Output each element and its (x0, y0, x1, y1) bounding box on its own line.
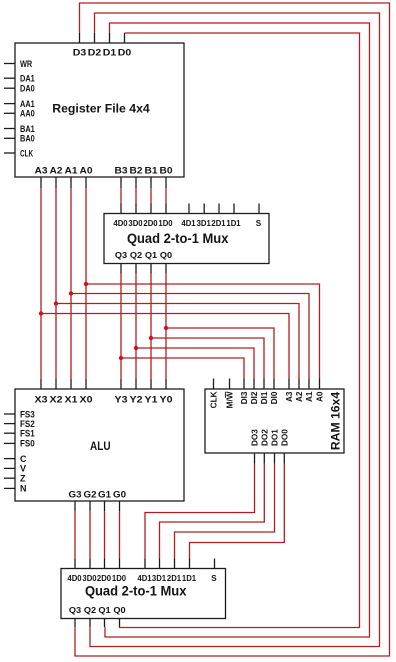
mux U2 pin 1D1 stub (233, 204, 235, 214)
svg-text:3D0: 3D0 (82, 574, 97, 583)
ALU pin Y2 stub (135, 379, 137, 389)
mux U5 pin S stub (214, 559, 216, 569)
svg-text:DI1: DI1 (260, 391, 269, 404)
svg-text:DI3: DI3 (240, 391, 249, 404)
register file pin A3 stub (40, 177, 42, 188)
RAM U4 box (205, 389, 344, 453)
RAM pin A0 stub (319, 379, 321, 390)
wire branch Y3 to RAM DI3 (121, 358, 244, 379)
register file pin B0 stub (165, 177, 167, 188)
RAM pin DO1 stub (274, 453, 276, 464)
svg-text:DA0: DA0 (20, 84, 35, 94)
svg-text:1D0: 1D0 (112, 574, 127, 583)
svg-text:DO1: DO1 (271, 429, 280, 446)
ALU pin G0 stub (119, 501, 121, 511)
mux U2 pin 4D1 stub (188, 204, 190, 214)
RAM pin CLK stub (213, 379, 215, 390)
RAM pin M/W overline (224, 392, 226, 398)
svg-text:2D1: 2D1 (167, 574, 182, 583)
register file pin A1 stub (70, 177, 72, 188)
ALU pin V stub (4, 467, 15, 469)
junction node Y1 (149, 336, 153, 340)
svg-text:WR: WR (20, 59, 33, 69)
svg-text:DO2: DO2 (261, 429, 270, 446)
svg-text:4D0: 4D0 (113, 219, 128, 228)
junction node A0 (84, 282, 88, 286)
mux U2 pin Q3 stub (120, 264, 122, 274)
svg-text:FS2: FS2 (20, 419, 35, 429)
ALU pin X2 stub (55, 379, 57, 389)
svg-text:B3: B3 (115, 166, 128, 176)
svg-text:G2: G2 (84, 489, 97, 499)
svg-text:1D1: 1D1 (182, 574, 197, 583)
wire branch A3 to RAM A3 (41, 314, 289, 379)
wire net A1 to ALU X1 (70, 188, 72, 379)
RAM pin DO3 stub (254, 453, 256, 464)
svg-text:DO3: DO3 (251, 429, 260, 446)
svg-text:Quad 2-to-1 Mux: Quad 2-to-1 Mux (127, 231, 229, 246)
mux U5 pin Q0 stub (119, 619, 121, 628)
svg-text:G3: G3 (69, 489, 82, 499)
RAM pin DI1 stub (263, 379, 265, 390)
wire net DO1 RAM to mux 2D1 (175, 464, 275, 559)
svg-text:Z: Z (20, 474, 26, 484)
svg-text:FS3: FS3 (20, 409, 35, 419)
wire net Q1 mux U5 to register D1 (105, 23, 370, 637)
wire net DO3 RAM to mux 4D1 (145, 464, 255, 559)
wire net Q2 mux U5 to register D2 (90, 13, 380, 647)
mux U2 pin Q2 stub (135, 264, 137, 274)
svg-text:Q2: Q2 (84, 606, 97, 615)
wire net Y3 mux Q3 to ALU Y3 (120, 274, 122, 380)
svg-text:4D1: 4D1 (181, 219, 196, 228)
junction node Y0 (164, 326, 168, 330)
svg-text:N: N (20, 484, 27, 494)
svg-text:Q1: Q1 (98, 606, 111, 615)
register file pin CLK stub (4, 152, 15, 154)
wire net DO2 RAM to mux 3D1 (160, 464, 265, 559)
quad 2-to-1 mux U5 box (61, 569, 226, 619)
ALU pin N stub (4, 487, 15, 489)
wire net B2 to mux 3D0 (135, 188, 137, 203)
svg-text:FS0: FS0 (20, 439, 35, 449)
svg-text:CLK: CLK (20, 148, 34, 158)
wire net Q0 mux U5 to register D0 (inner loop) (120, 33, 360, 628)
register file pin BA1 stub (4, 128, 15, 130)
svg-text:A1: A1 (65, 166, 78, 176)
ALU pin FS1 stub (4, 432, 15, 434)
ALU pin FS2 stub (4, 423, 15, 425)
mux U5 pin Q1 stub (104, 619, 106, 628)
register file pin A0 stub (85, 177, 87, 188)
ALU pin FS3 stub (4, 413, 15, 415)
register file pin A2 stub (55, 177, 57, 188)
svg-text:Quad 2-to-1 Mux: Quad 2-to-1 Mux (85, 583, 187, 598)
RAM pin A1 stub (308, 379, 310, 390)
svg-text:V: V (20, 464, 26, 474)
wire net B3 to mux 4D0 (120, 188, 122, 203)
register file pin D1 stub (109, 33, 111, 43)
svg-text:DI0: DI0 (270, 391, 279, 404)
svg-text:A3: A3 (35, 166, 48, 176)
svg-text:X3: X3 (35, 395, 48, 405)
svg-text:B1: B1 (145, 166, 158, 176)
mux U5 pin 1D0 stub (119, 559, 121, 569)
ALU pin G2 stub (89, 501, 91, 511)
svg-text:D3: D3 (73, 47, 87, 57)
register file pin DA0 stub (4, 87, 15, 89)
register file pin B3 stub (120, 177, 122, 188)
wire branch Y2 to RAM DI2 (136, 348, 254, 379)
svg-text:X1: X1 (65, 395, 78, 405)
svg-text:A0: A0 (80, 166, 93, 176)
wire net DO0 RAM to mux 1D1 (190, 464, 285, 559)
register file pin B2 stub (135, 177, 137, 188)
RAM pin DO2 stub (263, 453, 265, 464)
svg-text:B0: B0 (160, 166, 173, 176)
svg-text:Q0: Q0 (160, 251, 173, 260)
register file pin BA0 stub (4, 137, 15, 139)
RAM pin A3 stub (288, 379, 290, 390)
svg-text:FS1: FS1 (20, 429, 35, 439)
svg-text:Q2: Q2 (130, 251, 143, 260)
wire net Y2 mux Q2 to ALU Y2 (135, 274, 137, 380)
register file pin DA1 stub (4, 77, 15, 79)
svg-text:Y2: Y2 (130, 395, 143, 405)
mux U5 pin 2D0 stub (104, 559, 106, 569)
mux U2 pin 2D0 stub (150, 204, 152, 214)
mux U2 pin Q1 stub (150, 264, 152, 274)
ALU pin C stub (4, 458, 15, 460)
svg-text:3D0: 3D0 (128, 219, 143, 228)
svg-text:DA1: DA1 (20, 74, 35, 84)
svg-text:D0: D0 (118, 47, 132, 57)
mux U5 pin 3D1 stub (159, 559, 161, 569)
svg-text:D1: D1 (103, 47, 117, 57)
svg-text:A1: A1 (305, 391, 314, 402)
junction node Y3 (119, 356, 123, 360)
mux U5 pin 4D1 stub (144, 559, 146, 569)
svg-text:DO0: DO0 (281, 429, 290, 446)
mux U5 pin 4D0 stub (74, 559, 76, 569)
svg-text:AA0: AA0 (20, 109, 35, 119)
wire net Y0 mux Q0 to ALU Y0 (165, 274, 167, 380)
svg-text:S: S (211, 574, 217, 583)
RAM pin DI3 stub (243, 379, 245, 390)
svg-text:M/W: M/W (226, 391, 235, 408)
mux U5 pin 1D1 stub (189, 559, 191, 569)
svg-text:Q3: Q3 (115, 251, 128, 260)
junction node Y2 (134, 346, 138, 350)
RAM pin DI2 stub (253, 379, 255, 390)
register file pin D2 stub (94, 33, 96, 43)
junction node A3 (39, 311, 43, 315)
wire net B0 to mux 1D0 (165, 188, 167, 203)
svg-text:ALU: ALU (90, 439, 111, 453)
svg-text:Q3: Q3 (69, 606, 82, 615)
register file pin AA0 stub (4, 112, 15, 114)
svg-text:4D0: 4D0 (67, 574, 82, 583)
svg-text:G0: G0 (113, 489, 126, 499)
svg-text:S: S (256, 219, 262, 228)
svg-text:CLK: CLK (210, 391, 219, 408)
register file pin D0 stub (124, 33, 126, 43)
ALU pin X1 stub (70, 379, 72, 389)
ALU pin Y0 stub (165, 379, 167, 389)
wire net G0 ALU to mux 1D0 (119, 511, 121, 559)
ALU pin G3 stub (74, 501, 76, 511)
svg-text:Y1: Y1 (145, 395, 158, 405)
svg-text:A2: A2 (295, 391, 304, 402)
junction node A2 (54, 301, 58, 305)
svg-text:Register File 4x4: Register File 4x4 (52, 101, 150, 115)
mux U5 pin 3D0 stub (89, 559, 91, 569)
wire net B1 to mux 2D0 (150, 188, 152, 203)
svg-text:Y3: Y3 (115, 395, 128, 405)
ALU pin Z stub (4, 477, 15, 479)
mux U2 pin 2D1 stub (218, 204, 220, 214)
RAM pin DO0 stub (283, 453, 285, 464)
wire branch A0 to RAM A0 (86, 284, 320, 379)
wire net A2 to ALU X2 (55, 188, 57, 379)
svg-text:Q1: Q1 (145, 251, 158, 260)
register file pin B1 stub (150, 177, 152, 188)
wire net A0 to ALU X0 (85, 188, 87, 379)
svg-text:Y0: Y0 (160, 395, 173, 405)
mux U2 pin 1D0 stub (165, 204, 167, 214)
svg-text:A3: A3 (285, 391, 294, 402)
svg-text:C: C (20, 454, 27, 464)
wire branch Y1 to RAM DI1 (151, 338, 264, 379)
wire net A3 to ALU X3 (40, 188, 42, 379)
svg-text:A0: A0 (316, 391, 325, 402)
RAM pin M/W stub (229, 379, 231, 390)
svg-text:Q0: Q0 (113, 606, 126, 615)
mux U2 pin 3D0 stub (135, 204, 137, 214)
svg-text:3D1: 3D1 (197, 219, 212, 228)
svg-text:1D1: 1D1 (226, 219, 241, 228)
wire net Y1 mux Q1 to ALU Y1 (150, 274, 152, 380)
svg-text:3D1: 3D1 (152, 574, 167, 583)
ALU pin FS0 stub (4, 442, 15, 444)
mux U2 pin 3D1 stub (203, 204, 205, 214)
mux U2 pin S stub (258, 204, 260, 214)
wire branch A2 to RAM A2 (56, 304, 299, 379)
svg-text:AA1: AA1 (20, 99, 35, 109)
register file pin D3 stub (79, 33, 81, 43)
register file pin AA1 stub (4, 103, 15, 105)
svg-text:2D1: 2D1 (211, 219, 226, 228)
svg-text:BA1: BA1 (20, 124, 35, 134)
mux U5 pin Q2 stub (89, 619, 91, 628)
wire net G3 ALU to mux 4D0 (74, 511, 76, 559)
svg-text:RAM 16x4: RAM 16x4 (329, 392, 343, 450)
register file U1 box (15, 43, 184, 177)
ALU pin Y3 stub (120, 379, 122, 389)
svg-text:2D0: 2D0 (97, 574, 112, 583)
junction node A1 (69, 291, 73, 295)
svg-text:2D0: 2D0 (143, 219, 158, 228)
svg-text:1D0: 1D0 (158, 219, 173, 228)
RAM pin DI0 stub (273, 379, 275, 390)
wire net Q3 mux U5 to register D3 (outer loop) (75, 3, 390, 656)
svg-text:4D1: 4D1 (137, 574, 152, 583)
svg-text:X2: X2 (50, 395, 63, 405)
svg-text:A2: A2 (50, 166, 63, 176)
svg-text:G1: G1 (98, 489, 111, 499)
register file pin WR stub (4, 63, 15, 65)
mux U2 pin 4D0 stub (120, 204, 122, 214)
mux U5 pin Q3 stub (74, 619, 76, 628)
quad 2-to-1 mux U2 box (104, 214, 269, 264)
svg-text:X0: X0 (80, 395, 93, 405)
ALU U3 box (15, 389, 184, 501)
wire net G1 ALU to mux 2D0 (104, 511, 106, 559)
svg-text:D2: D2 (88, 47, 102, 57)
ALU pin X0 stub (85, 379, 87, 389)
wire branch Y0 to RAM DI0 (166, 328, 274, 379)
ALU pin G1 stub (104, 501, 106, 511)
svg-text:DI2: DI2 (250, 391, 259, 404)
wire net G2 ALU to mux 3D0 (89, 511, 91, 559)
ALU pin Y1 stub (150, 379, 152, 389)
svg-text:B2: B2 (130, 166, 143, 176)
ALU pin X3 stub (40, 379, 42, 389)
RAM pin A2 stub (298, 379, 300, 390)
svg-text:BA0: BA0 (20, 134, 35, 144)
wire branch A1 to RAM A1 (71, 294, 309, 379)
mux U5 pin 2D1 stub (174, 559, 176, 569)
mux U2 pin Q0 stub (165, 264, 167, 274)
